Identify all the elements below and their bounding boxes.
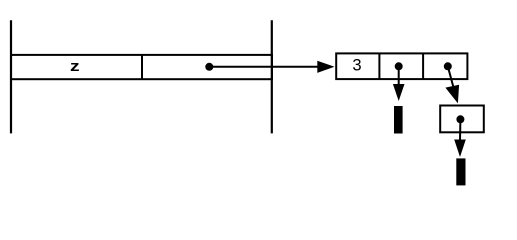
second node box — [440, 106, 484, 133]
svg-text:3: 3 — [352, 55, 361, 74]
null bar 2 — [456, 158, 465, 185]
wire: pointer arrow to list node — [209, 66, 318, 68]
node divider 2 — [422, 53, 424, 79]
right wall line — [271, 20, 273, 133]
node divider 1 — [378, 53, 380, 79]
wire: arrow down from cell 2 — [398, 66, 400, 85]
variable box divider — [141, 55, 143, 79]
variable box — [11, 55, 272, 79]
wire: arrow down from second node — [459, 119, 461, 140]
left wall line — [10, 20, 12, 133]
list node box (3 cells) — [336, 53, 467, 79]
pointer dot in variable box — [205, 63, 213, 71]
pointer dot cell 3 — [444, 62, 452, 70]
wire: diagonal arrow from cell 3 — [448, 66, 454, 87]
pointer dot cell 2 — [395, 62, 403, 70]
svg-text:z: z — [70, 59, 80, 75]
pointer dot in second node — [456, 115, 464, 123]
null bar 1 — [394, 106, 403, 134]
